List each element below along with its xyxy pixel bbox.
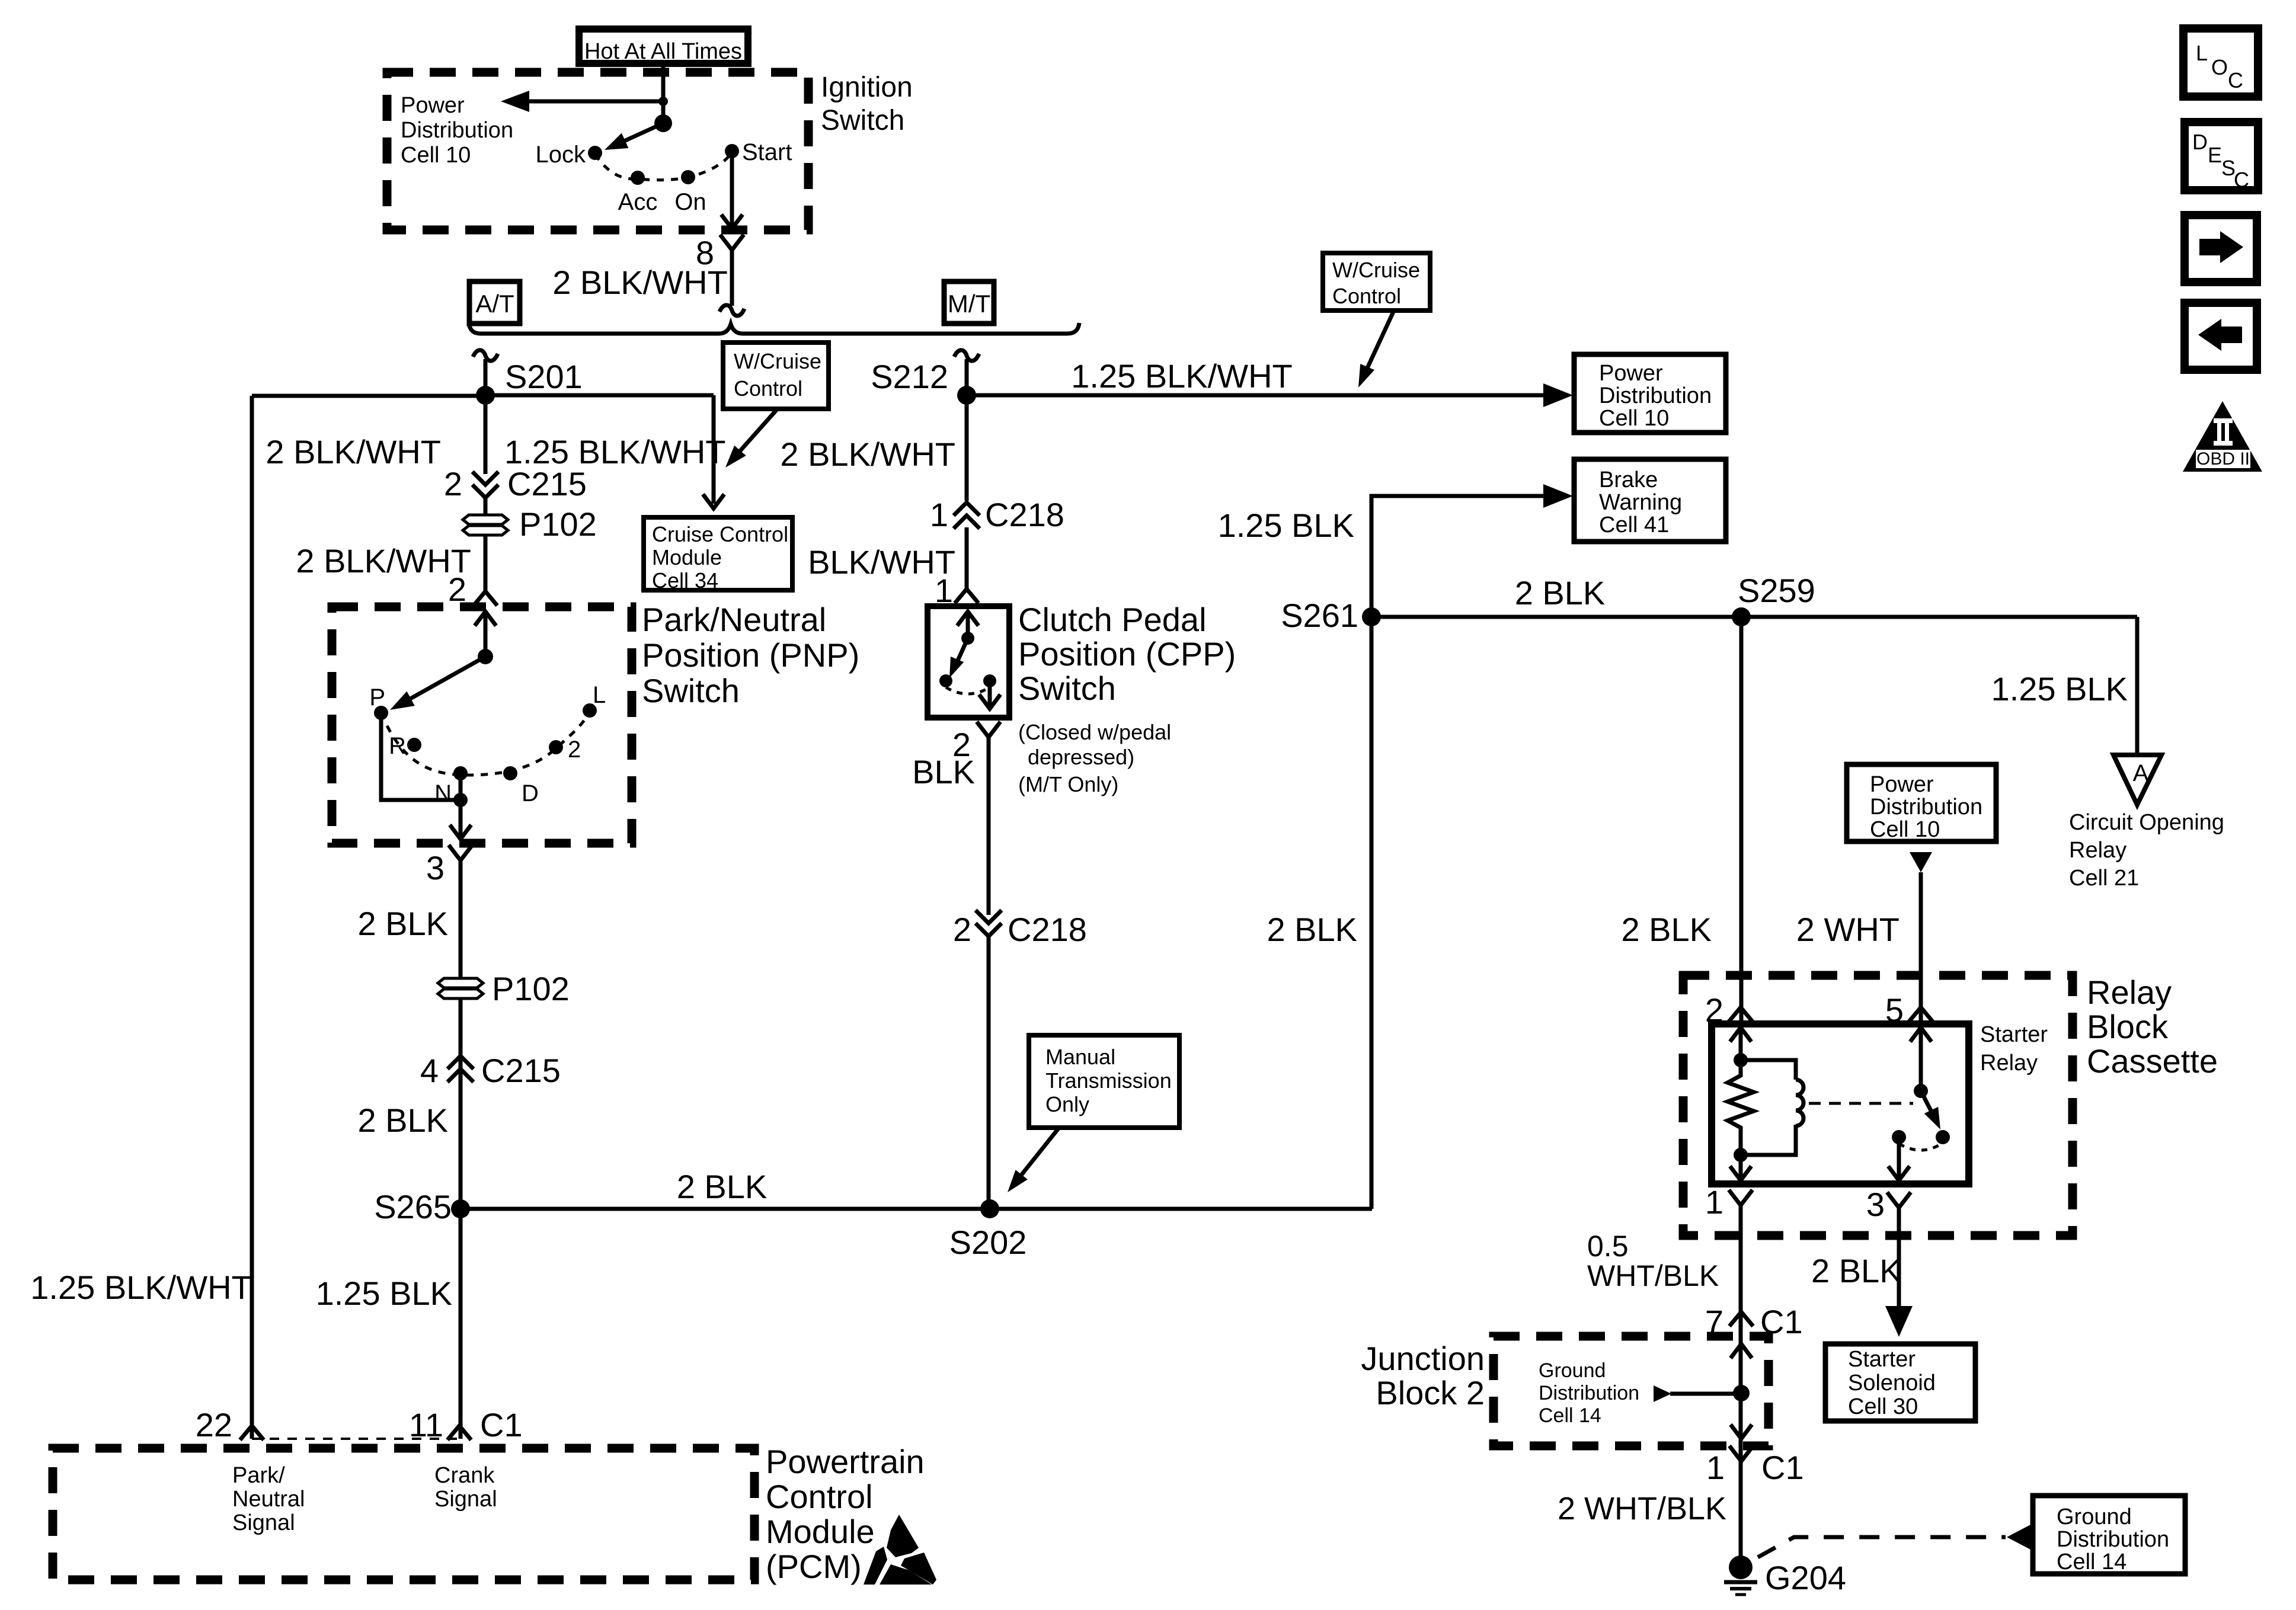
svg-text:Position (CPP): Position (CPP) [1018,635,1236,673]
svg-text:Brake: Brake [1599,468,1658,492]
node S261 [1362,607,1381,626]
svg-text:On: On [674,189,706,215]
svg-text:1.25 BLK/WHT: 1.25 BLK/WHT [1071,357,1292,395]
svg-text:S201: S201 [505,358,583,395]
svg-text:Relay: Relay [1980,1051,2038,1076]
svg-text:Cell 41: Cell 41 [1599,513,1669,537]
junction block 2 dashed enclosure [1494,1336,1769,1446]
node S259 [1732,607,1751,626]
svg-text:Cassette: Cassette [2087,1042,2218,1080]
svg-text:Manual: Manual [1045,1045,1115,1069]
svg-text:OBD II: OBD II [2196,449,2250,469]
ignition contact On [681,170,695,184]
svg-text:Cell 14: Cell 14 [1539,1404,1601,1427]
PNP wire N down [459,773,463,800]
wire C215 to P102 [484,498,488,514]
option box A/T [469,281,520,324]
label box Brake Warning Cell 41 [1574,459,1726,542]
svg-text:Switch: Switch [821,105,904,136]
PCM connector edge dashes [252,1438,459,1440]
svg-text:(Closed w/pedal: (Closed w/pedal [1018,720,1171,744]
svg-text:S202: S202 [949,1224,1027,1261]
svg-text:Starter: Starter [1848,1347,1916,1372]
relay coil top dot [1734,1053,1748,1067]
svg-text:C218: C218 [1008,911,1087,948]
svg-text:Switch: Switch [642,672,740,709]
PNP entry arrow [475,612,496,626]
PCM pin 22 connector [240,1426,264,1440]
svg-text:Cell 14: Cell 14 [2057,1550,2126,1574]
svg-text:R: R [389,733,406,759]
wire brace to S212 [965,359,969,395]
OBD II emblem [2183,401,2262,472]
svg-text:Distribution: Distribution [1599,383,1712,408]
relay coil bottom dot [1734,1148,1748,1162]
svg-text:Acc: Acc [618,189,658,215]
svg-text:2 BLK: 2 BLK [1811,1252,1902,1289]
starter relay box [1712,1024,1969,1184]
ignition contact Acc [631,171,645,185]
pointer from W/Cruise Control to wire [734,410,776,458]
svg-text:Neutral: Neutral [232,1487,305,1512]
relay pin 2 connector [1729,1007,1753,1022]
relay contact left [1892,1130,1906,1144]
svg-text:Solenoid: Solenoid [1848,1371,1936,1395]
svg-text:2 BLK: 2 BLK [677,1168,768,1205]
svg-text:(M/T Only): (M/T Only) [1018,772,1118,796]
far-left wire down to PCM pin 22 [250,396,254,1439]
svg-text:22: 22 [196,1406,232,1443]
relay pin 1 connector [1729,1190,1753,1205]
svg-text:Crank: Crank [434,1463,495,1488]
PCM dashed enclosure [53,1448,754,1580]
PNP wire P to N junction [381,713,461,800]
relay contact right [1936,1130,1950,1144]
wire to relay pin 5 [1919,872,1923,1029]
svg-text:Cell 30: Cell 30 [1848,1394,1918,1419]
svg-text:Control: Control [766,1478,873,1515]
svg-text:Distribution: Distribution [2057,1527,2169,1552]
svg-text:Module: Module [766,1513,875,1550]
svg-text:BLK: BLK [912,753,975,790]
svg-text:Start: Start [742,139,792,165]
svg-text:Control: Control [734,376,802,401]
svg-text:1: 1 [1705,1183,1723,1221]
callout W/Cruise Control (right) [1323,253,1430,311]
svg-text:Block 2: Block 2 [1376,1374,1485,1411]
svg-text:D: D [522,780,539,806]
svg-text:Position (PNP): Position (PNP) [642,636,859,674]
wire from Hot At All Times to ignition switch [661,63,666,123]
svg-text:(PCM): (PCM) [766,1548,862,1585]
relay output arrow [1897,1137,1901,1180]
svg-text:Powertrain: Powertrain [766,1443,925,1480]
svg-text:3: 3 [1866,1186,1885,1223]
svg-text:1.25 BLK: 1.25 BLK [316,1275,452,1312]
svg-text:0.5: 0.5 [1587,1230,1629,1263]
connector C1 pin 1 [1729,1446,1753,1461]
PNP junction dot [453,793,468,807]
relay coil exit arrow [1739,1155,1743,1180]
arrow into Cruise Control Module [703,494,724,508]
svg-text:S265: S265 [374,1188,452,1225]
svg-text:depressed): depressed) [1028,745,1134,769]
svg-text:Cell 34: Cell 34 [652,568,718,593]
svg-text:W/Cruise: W/Cruise [734,349,821,373]
svg-text:2: 2 [568,737,581,763]
svg-text:N: N [434,780,452,806]
svg-text:2 BLK: 2 BLK [1621,911,1712,948]
ignition contact dashed arc [595,152,732,180]
svg-text:L: L [593,682,606,708]
pointer Manual Transmission Only to S202 [1015,1128,1059,1183]
svg-text:P102: P102 [519,505,597,543]
svg-text:Relay: Relay [2087,974,2172,1011]
splice P102 upper [463,515,508,524]
PCM pin 11 connector [447,1426,471,1440]
CPP exit wire [988,681,992,706]
svg-text:BLK/WHT: BLK/WHT [808,543,955,581]
svg-text:Distribution: Distribution [1870,795,1982,820]
ignition switch dashed enclosure [387,72,808,230]
dashed link to ground distribution [1758,1537,2006,1557]
PNP pin 3 connector [449,845,472,860]
svg-text:Ground: Ground [1539,1359,1606,1382]
wire C218 to S202 [987,936,991,1209]
svg-text:Distribution: Distribution [401,118,513,143]
PNP exit wire [459,800,463,836]
PNP pivot dot [478,649,493,664]
wire S201 left run [252,394,485,398]
svg-text:L: L [2196,41,2208,65]
wire from Start down (pin 8) [730,151,734,225]
distribution brace [469,323,1079,334]
wire S212 down to C218 [965,395,969,501]
ESD sensitivity symbol [887,1515,919,1557]
svg-text:C: C [2234,168,2249,192]
nav box next arrow [2185,215,2257,282]
wire C218 to CPP switch [965,527,969,593]
squiggle above S212 [954,350,979,361]
svg-text:C218: C218 [985,496,1064,533]
svg-text:C1: C1 [1761,1449,1804,1486]
wire S259 to relay pin 2 [1739,617,1744,1029]
label box Ground Distribution Cell 14 (right) [2033,1496,2185,1574]
CPP movable arm [954,638,968,668]
svg-text:Ground: Ground [2057,1505,2132,1529]
svg-text:3: 3 [426,849,445,886]
pointer from Power Distribution box down [1910,852,1932,872]
svg-text:Junction: Junction [1361,1340,1485,1377]
PNP contact dashed arc [381,710,590,775]
relay coil entry arrow [1730,1028,1751,1042]
svg-text:1: 1 [930,496,948,533]
svg-text:Hot At All Times: Hot At All Times [584,39,742,64]
label box Cruise Control Module Cell 34 [644,517,792,590]
relay resistor [1728,1060,1754,1155]
relay switch feed arrow [1910,1028,1932,1042]
wire S201 to cruise control corner [485,393,714,398]
wire S259 run to circuit opening relay [2135,617,2140,753]
svg-text:A: A [2133,760,2149,786]
PNP contact N [453,766,468,780]
svg-text:Control: Control [1332,284,1401,308]
svg-text:2 BLK/WHT: 2 BLK/WHT [780,436,955,473]
svg-text:Transmission: Transmission [1045,1068,1172,1093]
pointer W/Cruise Control to wire [1364,311,1394,375]
svg-text:2: 2 [953,911,971,948]
node S202 [980,1199,999,1218]
wire S261 to S259 to far right [1371,615,2137,619]
junction wire entry arrow [1731,1344,1752,1358]
PNP movable arm to P [403,657,485,703]
svg-text:W/Cruise: W/Cruise [1332,258,1420,282]
label box Power Distribution Cell 10 (right) [1574,354,1726,433]
svg-text:2 BLK: 2 BLK [1515,574,1606,612]
nav box LOC [2183,28,2258,97]
arrow to Power Distribution Cell 10 [522,100,663,104]
ground G204 [1729,1555,1753,1579]
wire S261 up to Brake Warning [1371,496,1547,617]
svg-text:G204: G204 [1765,1559,1846,1596]
svg-text:Power: Power [1870,772,1934,797]
svg-text:4: 4 [420,1052,439,1089]
CPP contact dashed arc [946,687,990,694]
svg-text:Power: Power [401,93,465,118]
label box Hot At All Times [579,29,748,63]
wire S265 to PCM pin 11 [459,1209,463,1439]
relay block cassette dashed enclosure [1683,975,2073,1235]
svg-text:2 BLK/WHT: 2 BLK/WHT [296,542,471,580]
PNP contact P [374,706,388,720]
nav box previous arrow [2185,303,2257,370]
svg-text:Circuit Opening: Circuit Opening [2069,810,2224,835]
svg-text:Park/: Park/ [232,1463,285,1488]
svg-text:1.25 BLK: 1.25 BLK [1218,507,1354,544]
connector C215 pin 2 [472,472,498,485]
svg-text:S259: S259 [1738,572,1815,609]
junction node dot [1733,1385,1750,1401]
junction ground feed pointer [1654,1385,1671,1402]
node S201 [476,386,495,405]
PNP switch dashed enclosure [332,607,632,843]
svg-text:1: 1 [1706,1449,1725,1486]
connector C1 pin 7 [1729,1312,1753,1326]
svg-text:Cell 10: Cell 10 [1870,817,1940,842]
svg-text:2 BLK: 2 BLK [357,1102,448,1139]
ignition contact Lock [588,146,602,160]
PNP contact L [583,703,597,718]
svg-text:2 BLK/WHT: 2 BLK/WHT [266,433,441,470]
svg-text:2: 2 [444,465,462,502]
relay coil winding [1741,1060,1796,1155]
svg-text:Clutch Pedal: Clutch Pedal [1018,601,1207,638]
junction exit arrow [1731,1425,1752,1439]
label box Power Distribution Cell 10 (relay feed) [1847,764,1996,841]
svg-text:Ignition: Ignition [821,72,913,103]
node S265 [451,1199,470,1218]
svg-text:S261: S261 [1281,597,1358,634]
svg-text:2 BLK: 2 BLK [357,905,448,942]
svg-text:Module: Module [652,545,722,569]
svg-text:Power: Power [1599,361,1663,386]
svg-text:D: D [2192,130,2208,154]
relay pin 3 connector [1887,1192,1911,1208]
wire S265 to S202 to right riser [461,1207,1372,1211]
nav box DESC [2185,122,2258,190]
wire P102 to PNP switch [484,536,488,594]
wire brace to S201 [484,359,488,395]
callout W/Cruise Control (left) [723,343,829,409]
svg-text:Park/Neutral: Park/Neutral [642,601,826,638]
svg-text:2 WHT/BLK: 2 WHT/BLK [1558,1491,1726,1526]
svg-text:WHT/BLK: WHT/BLK [1587,1259,1719,1292]
svg-text:2 BLK: 2 BLK [1267,911,1357,948]
svg-text:Signal: Signal [232,1510,295,1535]
splice P102 lower [438,978,483,988]
svg-text:Cell 10: Cell 10 [1599,406,1669,431]
ignition contact Start [725,144,739,158]
svg-text:E: E [2208,143,2222,167]
svg-text:Cell 10: Cell 10 [401,143,471,168]
svg-text:Only: Only [1045,1092,1089,1116]
CPP pivot dot [961,632,974,645]
svg-text:Distribution: Distribution [1539,1382,1639,1404]
option box M/T [944,281,994,324]
svg-text:C215: C215 [507,465,587,502]
junction dot on ignition feed [658,97,668,106]
svg-text:Switch: Switch [1018,670,1116,707]
svg-text:2 WHT: 2 WHT [1796,911,1900,948]
PNP contact 2 [549,740,563,754]
wire S261 down to bottom run [1370,617,1374,1209]
svg-text:1.25 BLK/WHT: 1.25 BLK/WHT [30,1269,251,1306]
svg-text:1.25 BLK: 1.25 BLK [1991,670,2128,708]
wire slack squiggle above brace [720,305,744,316]
svg-text:C: C [2228,68,2243,92]
svg-text:Starter: Starter [1980,1022,2048,1047]
svg-text:P: P [369,684,385,710]
relay pin 5 connector [1909,1007,1933,1022]
svg-text:Cruise Control: Cruise Control [652,522,788,546]
wire S212 to Power Distribution [967,393,1547,398]
svg-text:Warning: Warning [1599,490,1682,515]
svg-text:P102: P102 [492,970,570,1007]
relay switch common dot [1914,1084,1928,1098]
svg-text:2 BLK/WHT: 2 BLK/WHT [552,264,728,301]
PNP contact R [407,738,421,752]
svg-text:Signal: Signal [434,1487,497,1512]
svg-text:O: O [2211,55,2228,79]
label box Starter Solenoid Cell 30 [1825,1344,1975,1421]
arrow to starter solenoid [1897,1208,1901,1308]
CPP contact left [939,674,952,687]
CPP entry arrow [957,612,978,626]
relay switch arm [1921,1091,1934,1118]
svg-text:Block: Block [2087,1008,2169,1045]
off-page triangle A [2113,755,2161,805]
svg-text:Lock: Lock [536,142,586,168]
svg-text:Cell 21: Cell 21 [2069,866,2139,891]
wire S201 to C215 [484,395,488,474]
CPP switch box [928,606,1009,718]
ignition switch pivot dot [654,114,672,132]
ignition switch movable arm [616,123,663,145]
relay contact dashed arc [1899,1144,1942,1150]
PNP contact D [503,766,517,780]
relay actuation dashed link [1809,1102,1913,1105]
svg-text:M/T: M/T [948,290,990,318]
svg-text:S212: S212 [871,358,948,395]
svg-text:A/T: A/T [475,290,514,318]
squiggle above S201 [473,350,498,361]
CPP pin 2 connector [977,722,1000,737]
svg-text:C215: C215 [481,1052,561,1089]
svg-text:Relay: Relay [2069,838,2126,863]
CPP contact right [983,674,996,687]
svg-text:C1: C1 [480,1406,523,1443]
pin 8 connector [720,235,744,250]
label box Manual Transmission Only [1029,1035,1179,1128]
node S212 [957,386,976,405]
